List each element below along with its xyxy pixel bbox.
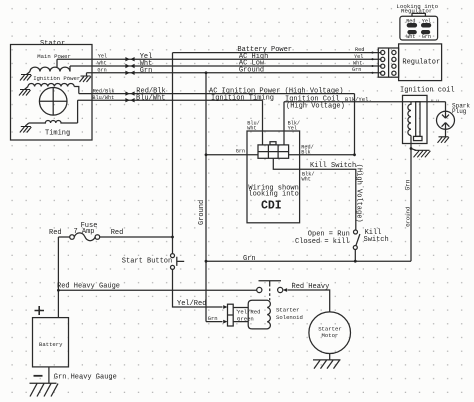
svg-text:(High Voltage): (High Voltage)	[286, 102, 345, 110]
svg-text:Timing: Timing	[45, 130, 70, 138]
svg-text:Main Power: Main Power	[37, 53, 71, 60]
svg-text:Wht: Wht	[97, 61, 106, 67]
svg-text:CDI: CDI	[261, 199, 282, 212]
svg-text:Ground: Ground	[404, 207, 411, 227]
svg-text:Green: Green	[237, 316, 254, 323]
svg-text:Solenoid: Solenoid	[276, 314, 303, 321]
svg-text:Closed = kill: Closed = kill	[295, 238, 350, 246]
svg-text:Grn: Grn	[97, 67, 106, 73]
svg-text:Regulator: Regulator	[402, 59, 440, 67]
svg-text:Ignition Timing: Ignition Timing	[211, 94, 274, 102]
svg-text:Red: Red	[49, 229, 62, 237]
svg-text:looking into: looking into	[248, 191, 298, 199]
svg-text:Yel: Yel	[354, 54, 363, 60]
svg-text:Red: Red	[355, 47, 364, 53]
svg-text:Kill Switch: Kill Switch	[310, 162, 356, 170]
svg-text:Grn: Grn	[422, 34, 431, 40]
svg-text:Grn: Grn	[208, 315, 218, 322]
svg-text:Yel/Red: Yel/Red	[177, 300, 206, 308]
svg-text:Grn: Grn	[243, 255, 256, 263]
svg-text:Ignition Power: Ignition Power	[33, 75, 80, 82]
svg-text:Red Heavy Gauge: Red Heavy Gauge	[57, 282, 120, 290]
svg-text:Yel: Yel	[288, 125, 297, 131]
svg-text:Blu/Wht: Blu/Wht	[92, 95, 114, 101]
svg-text:Red: Red	[111, 229, 124, 237]
svg-text:7 Amp: 7 Amp	[74, 228, 95, 236]
svg-text:Grn: Grn	[140, 67, 153, 75]
svg-text:Yel: Yel	[422, 18, 431, 24]
svg-text:Blk/Yel.: Blk/Yel.	[345, 96, 372, 103]
svg-text:Starter: Starter	[276, 307, 300, 314]
svg-text:Yel: Yel	[98, 54, 107, 60]
svg-text:Wht: Wht	[406, 34, 415, 40]
svg-text:Grn: Grn	[404, 179, 411, 190]
svg-text:Ignition coil: Ignition coil	[400, 86, 455, 94]
svg-text:Red: Red	[406, 18, 415, 24]
svg-text:Switch: Switch	[364, 236, 389, 244]
svg-text:Blu/Wht: Blu/Wht	[136, 94, 165, 102]
svg-text:Start Button: Start Button	[122, 258, 172, 266]
svg-text:Blk: Blk	[301, 149, 310, 155]
svg-text:Plug: Plug	[452, 108, 467, 115]
svg-text:Motor: Motor	[322, 332, 339, 339]
svg-text:Wht: Wht	[302, 177, 311, 183]
svg-text:Red Heavy: Red Heavy	[292, 283, 330, 291]
svg-text:Grn Heavy Gauge: Grn Heavy Gauge	[54, 373, 117, 381]
svg-text:Wht: Wht	[247, 125, 256, 131]
svg-text:Grn: Grn	[352, 67, 361, 73]
svg-text:Wht: Wht	[353, 61, 362, 67]
svg-text:Battery: Battery	[39, 341, 63, 348]
svg-text:(High Voltage): (High Voltage)	[354, 164, 362, 223]
svg-text:Grn: Grn	[236, 149, 245, 155]
svg-text:u u: u u	[431, 99, 440, 104]
svg-text:Regulator: Regulator	[401, 8, 432, 15]
svg-text:Stator: Stator	[40, 40, 65, 48]
svg-text:Red/Blk: Red/Blk	[93, 89, 115, 95]
svg-text:Ground: Ground	[198, 200, 206, 225]
svg-text:Ground: Ground	[239, 66, 264, 74]
svg-text:Yel/Red: Yel/Red	[237, 308, 261, 315]
